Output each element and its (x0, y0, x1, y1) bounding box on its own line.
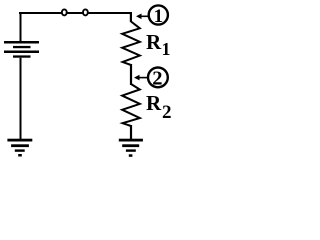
node 2 circled label (148, 68, 168, 88)
node 2 arrow (134, 75, 140, 81)
terminal circle T1 (62, 9, 67, 15)
terminal circle T2 (83, 9, 88, 15)
ground (right) (119, 139, 143, 157)
svg-text:R: R (146, 91, 162, 115)
wire R2 to ground (130, 125, 132, 139)
svg-text:2: 2 (152, 67, 162, 89)
svg-text:R: R (146, 30, 162, 54)
wire top horizontal (19, 12, 132, 14)
svg-text:1: 1 (162, 39, 171, 59)
wire right vertical (top corner to R1) (130, 12, 132, 22)
node 1 arrow (136, 14, 142, 20)
battery B1 (4, 41, 39, 58)
wire left vertical (top corner to battery) (20, 12, 22, 42)
ground (left) (7, 139, 32, 157)
wire left vertical (battery to ground) (20, 58, 22, 140)
wire between R1 and R2 (130, 64, 132, 85)
node 1 circled label (149, 5, 168, 24)
svg-text:2: 2 (162, 102, 172, 123)
svg-text:1: 1 (154, 6, 164, 27)
resistor R2 (122, 84, 140, 126)
resistor R1 (122, 22, 140, 66)
